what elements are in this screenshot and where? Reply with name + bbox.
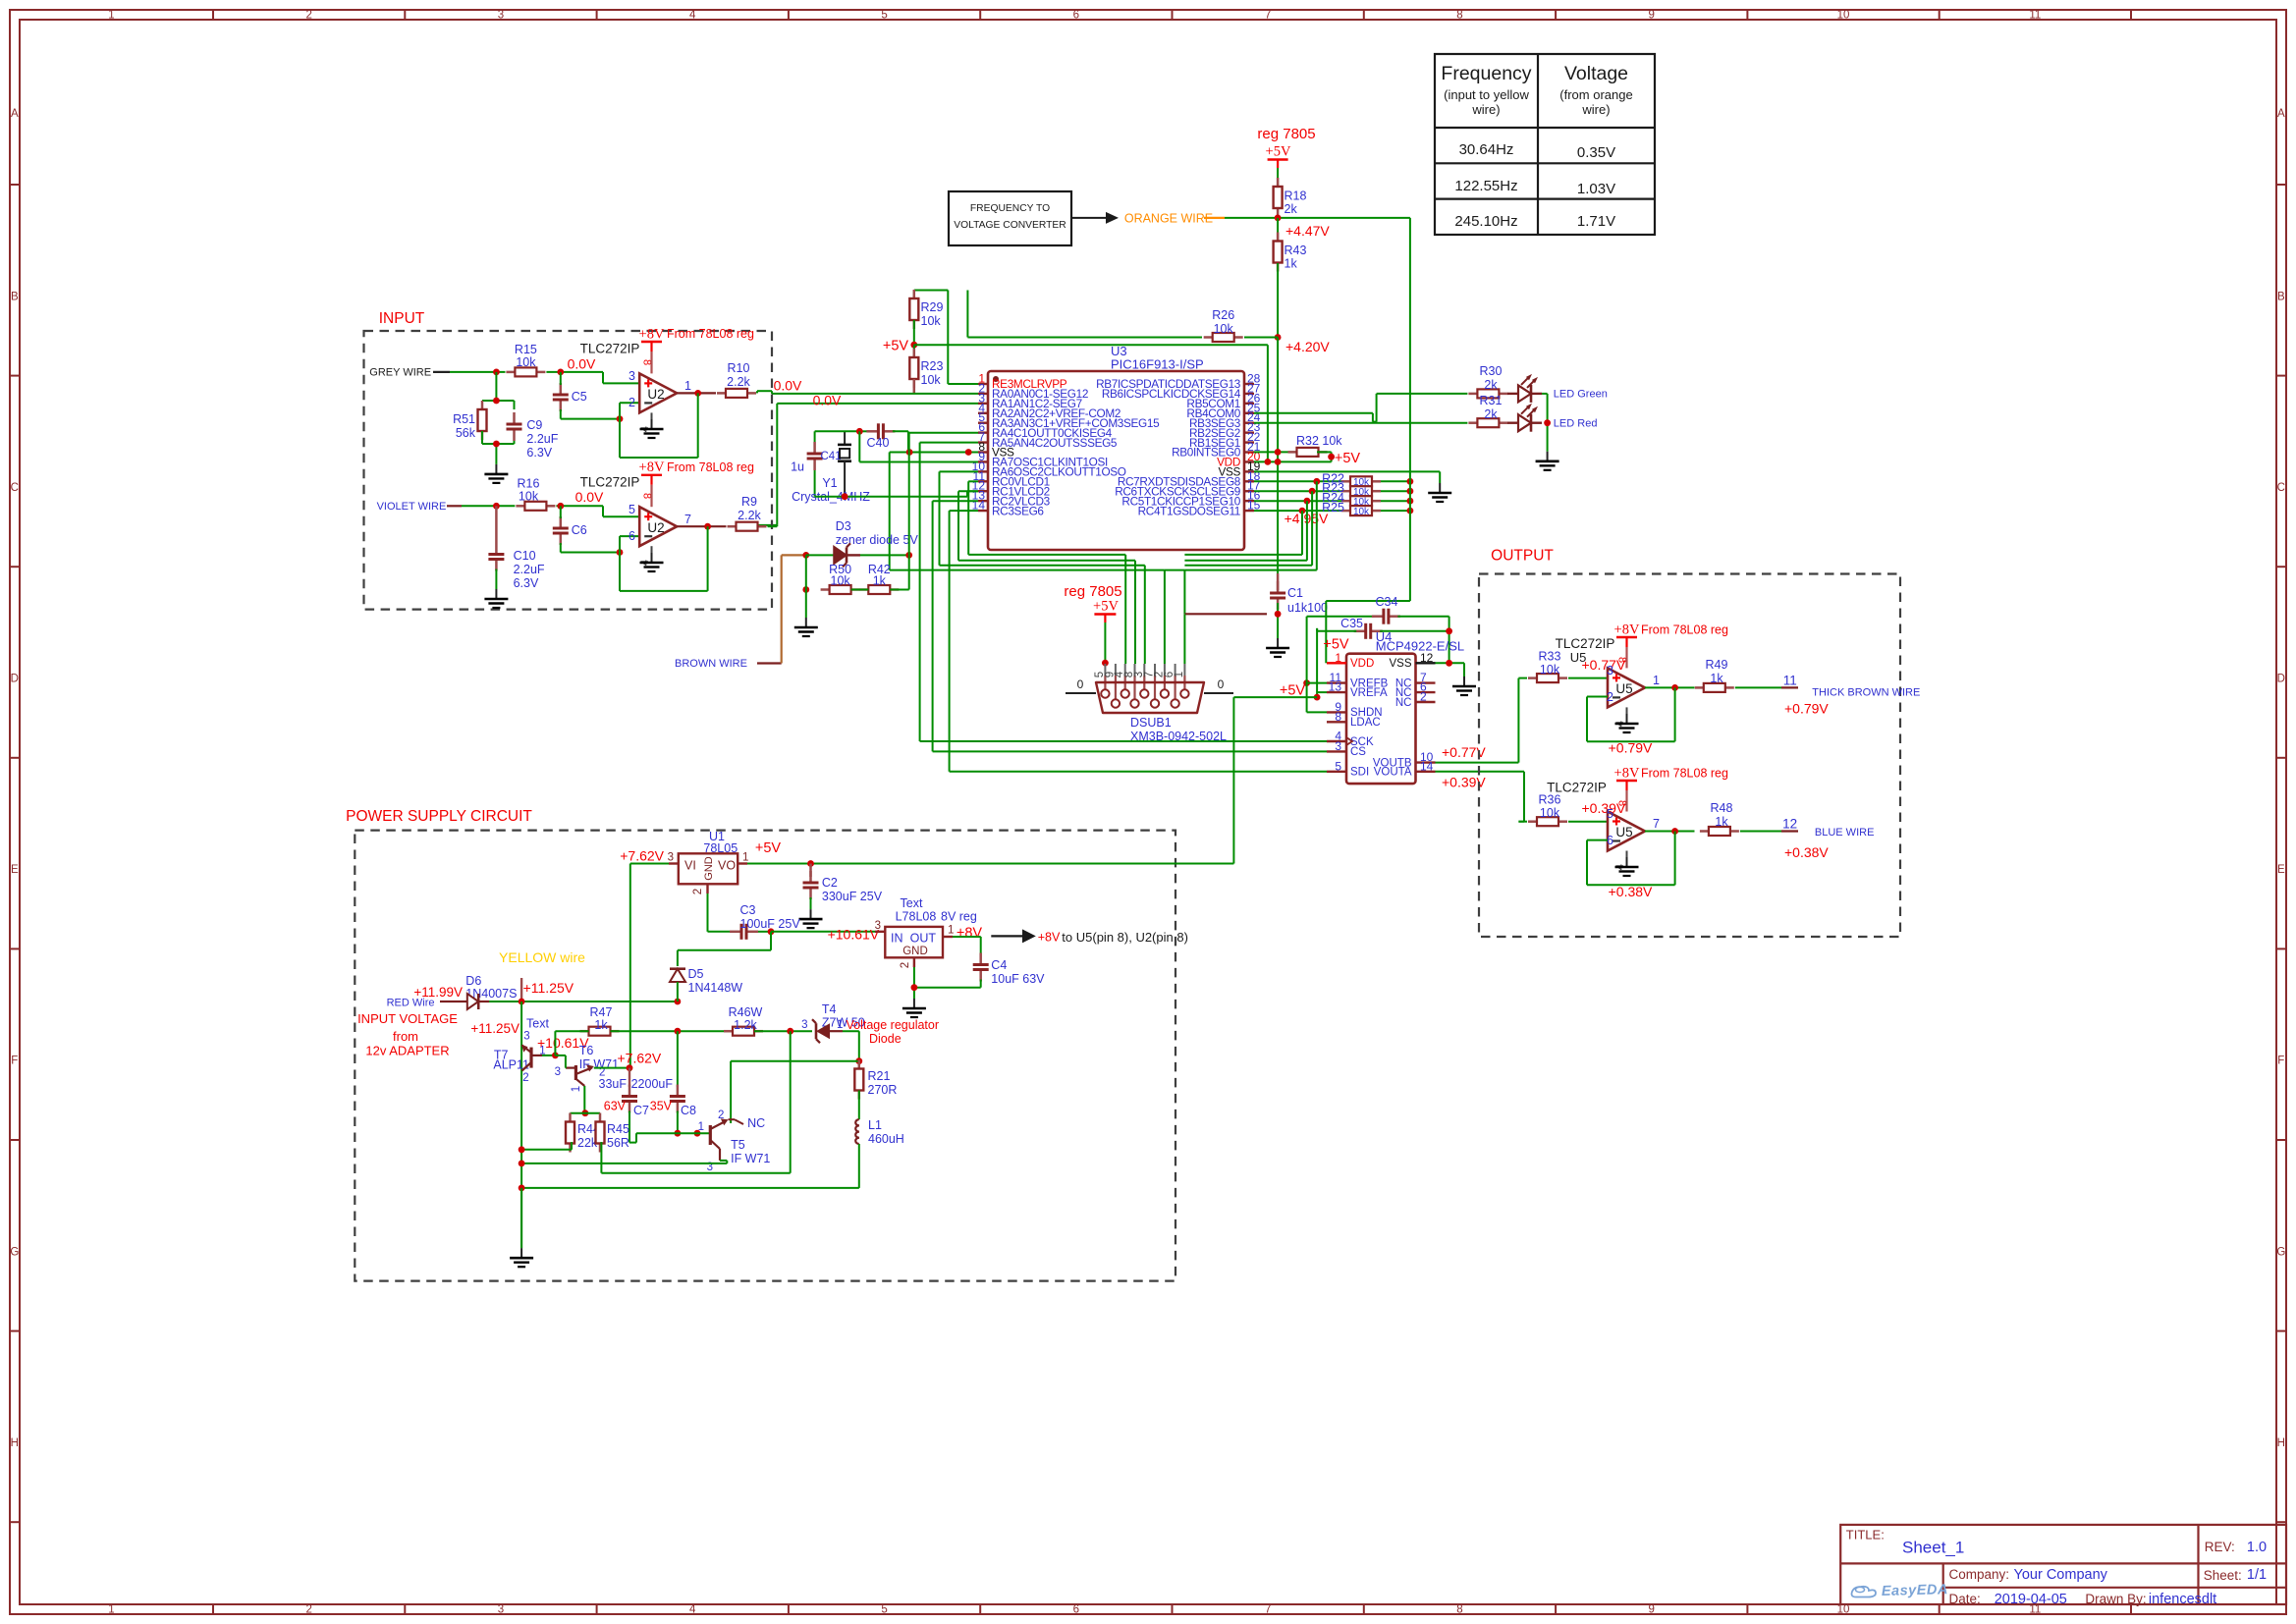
transistor T7 ALP11: [493, 1031, 545, 1085]
svg-text:A: A: [11, 108, 19, 120]
svg-text:R45: R45: [607, 1122, 629, 1136]
svg-text:LDAC: LDAC: [1350, 717, 1381, 729]
svg-text:7: 7: [684, 513, 691, 526]
svg-text:R10: R10: [728, 361, 750, 375]
svg-text:+0.38V: +0.38V: [1609, 884, 1653, 899]
svg-text:H: H: [2277, 1437, 2285, 1449]
svg-text:8V reg: 8V reg: [941, 909, 977, 923]
title block texts: [1846, 1528, 2267, 1608]
svg-text:VOUTA: VOUTA: [1374, 767, 1412, 779]
svg-text:1k: 1k: [1710, 672, 1723, 685]
wire R10 out: [756, 391, 758, 393]
svg-text:1: 1: [108, 10, 114, 22]
svg-text:10: 10: [1837, 10, 1850, 22]
power +5V (top reg7805): [1266, 144, 1291, 169]
svg-text:from: from: [393, 1029, 418, 1044]
diode D3 (zener): [806, 543, 860, 567]
U3 pin 6 RA4C1OUTT0CKISEG4: [978, 420, 1113, 440]
svg-text:C40: C40: [867, 436, 890, 450]
resistor R32 10k: [1288, 434, 1343, 457]
U4 pin 11 VREFB: [1327, 671, 1389, 689]
wire OSC1 to U3 pin9: [859, 431, 978, 461]
wire to +in U2a: [603, 372, 639, 384]
wire C5 top lead: [560, 372, 562, 385]
junction R25 right: [1407, 508, 1414, 514]
U3 pin 10 RA6OSC2CLKOUTT1OSO: [972, 460, 1126, 479]
junction LED red: [1544, 419, 1551, 426]
svg-text:G: G: [10, 1246, 19, 1258]
wire R44/R45 tops: [571, 1113, 601, 1121]
svg-text:R32 10k: R32 10k: [1296, 434, 1342, 448]
inductor L1 460uH: [855, 1118, 904, 1146]
U4 pin 1 VDD: [1327, 651, 1374, 670]
svg-text:3: 3: [629, 369, 635, 383]
svg-text:13: 13: [1329, 680, 1342, 694]
svg-text:11: 11: [2029, 10, 2041, 22]
net label ORANGE WIRE: [1124, 212, 1225, 226]
svg-text:D: D: [2277, 674, 2285, 685]
svg-text:122.55Hz: 122.55Hz: [1454, 178, 1517, 194]
sub-network R51/C9: [482, 372, 515, 409]
wire R47 row left: [555, 1031, 588, 1056]
junction grey node: [493, 369, 500, 376]
svg-text:L78L08: L78L08: [896, 909, 937, 923]
junction R51C9 bottom: [493, 441, 500, 448]
svg-text:2: 2: [305, 1604, 311, 1616]
svg-text:OUTPUT: OUTPUT: [1491, 548, 1554, 565]
svg-text:1: 1: [571, 1086, 582, 1092]
resistor R24 10k: [1322, 491, 1381, 508]
svg-text:9: 9: [1649, 1604, 1655, 1616]
wire R33 to +in: [1568, 677, 1608, 679]
svg-text:VDD: VDD: [1350, 658, 1374, 670]
svg-text:10k: 10k: [921, 314, 942, 328]
svg-text:8: 8: [1456, 1604, 1462, 1616]
wire gnd column via C1 row: [1165, 570, 1267, 664]
junction C7 top: [627, 1064, 633, 1071]
wire C40 right to VSS column: [893, 431, 908, 452]
zener T4 Z7W 50: [801, 1002, 865, 1043]
svg-text:VIOLET WIRE: VIOLET WIRE: [377, 501, 447, 513]
svg-text:1u: 1u: [791, 460, 804, 474]
resistor R23 10k: [1322, 481, 1381, 498]
junction R23 right: [1407, 488, 1414, 495]
svg-text:5: 5: [629, 503, 635, 516]
svg-text:U2: U2: [647, 520, 664, 535]
power +8V (U5a): [1614, 623, 1640, 669]
wire U4 VSS to ground: [1436, 663, 1465, 677]
svg-text:U5: U5: [1615, 825, 1632, 839]
wire U3 to R25: [1254, 510, 1341, 512]
svg-text:6: 6: [1607, 834, 1613, 847]
svg-text:L1: L1: [868, 1118, 882, 1132]
junction U5a output: [1671, 684, 1678, 691]
junction R22 right: [1407, 478, 1414, 485]
wire C7 bottom to T5 row: [629, 1111, 636, 1143]
svg-text:R47: R47: [590, 1005, 613, 1019]
net label NC: [729, 1116, 766, 1130]
wire pin10 to DSUB seg: [940, 471, 1145, 664]
wire to main ground: [520, 1188, 522, 1248]
svg-text:R33: R33: [1539, 650, 1561, 664]
wire pin6 column: [909, 433, 978, 556]
svg-text:INPUT: INPUT: [379, 310, 425, 327]
svg-text:D5: D5: [688, 967, 704, 981]
svg-text:VO: VO: [718, 859, 736, 873]
svg-text:33uF: 33uF: [599, 1077, 628, 1091]
svg-text:C: C: [11, 482, 19, 494]
U4 pin 4 SCK: [1327, 730, 1374, 748]
EasyEDA logo: [1852, 1582, 1949, 1599]
svg-text:5: 5: [881, 1604, 887, 1616]
ground below R50: [805, 618, 807, 627]
resistor R33 10k: [1528, 650, 1567, 683]
U3 pin 22 RB1SEG1: [1189, 430, 1261, 450]
svg-text:10k: 10k: [921, 373, 942, 387]
wire pin14 to SDI: [950, 511, 1327, 772]
capacitor C9 2.2uF 6.3V: [507, 412, 559, 460]
svg-text:R30: R30: [1480, 364, 1503, 378]
wire R21 to L1: [858, 1091, 860, 1120]
resistor R43: [1274, 233, 1307, 272]
power +8V (U2a): [639, 326, 665, 373]
svg-text:+4.47V: +4.47V: [1285, 223, 1330, 239]
wire C3 to IN node: [758, 931, 771, 933]
svg-text:7: 7: [1265, 1604, 1271, 1616]
wire crystal top row: [815, 430, 860, 432]
svg-text:Y1: Y1: [822, 476, 837, 490]
svg-text:B: B: [11, 291, 19, 302]
ground U2b pin4: [640, 546, 664, 571]
junction R47/C8 column: [675, 1028, 682, 1035]
U3 pin 18 RC7RXDTSDISDASEG8: [1118, 469, 1261, 489]
junction T7/T6: [552, 1053, 559, 1059]
svg-text:YELLOW wire: YELLOW wire: [499, 949, 585, 965]
resistor R29: [909, 290, 943, 329]
resistor R51 56k: [453, 401, 486, 440]
wire R15 to node2: [546, 371, 603, 373]
svg-text:5: 5: [1335, 759, 1341, 773]
wire R29 top: [914, 291, 978, 385]
U3 pin 20 VDD: [1217, 450, 1261, 469]
wire bottom rail 3: [521, 1187, 859, 1189]
resistor R46W 1.2k: [724, 1005, 763, 1036]
svg-text:R15: R15: [515, 343, 537, 356]
wire pin21 to R32: [1254, 451, 1298, 453]
svg-text:U2: U2: [647, 387, 664, 402]
ic U3 PIC16F913-I/SP: [988, 344, 1244, 550]
capacitor C8 2200uF 35V: [631, 1031, 696, 1117]
crystal Y1 Crystal_4MHZ: [792, 431, 870, 504]
svg-text:1: 1: [1335, 651, 1341, 665]
U4 pin 13 VREFA: [1327, 680, 1388, 699]
svg-text:CS: CS: [1350, 746, 1366, 758]
svg-text:From 78L08 reg: From 78L08 reg: [667, 327, 754, 341]
wire IN node down to D5: [678, 932, 771, 966]
junction C8 bottom: [675, 1130, 682, 1137]
feedback loop U5a: [1587, 687, 1675, 741]
wire bus down to C1: [1277, 461, 1279, 573]
svg-text:2.2uF: 2.2uF: [514, 563, 545, 576]
wire 0.0V ch1 to U3 pin2: [757, 391, 978, 394]
wire U3 to R23: [1254, 490, 1341, 492]
svg-text:330uF 25V: 330uF 25V: [822, 890, 883, 903]
svg-text:reg 7805: reg 7805: [1257, 126, 1315, 142]
junction VSS row b: [965, 449, 972, 456]
arrow to orange wire: [1071, 212, 1119, 224]
junction R25 left riser: [1299, 508, 1306, 514]
net label BROWN WIRE: [675, 658, 782, 670]
svg-text:6.3V: 6.3V: [526, 446, 552, 460]
resistor R45 56R: [596, 1113, 629, 1153]
resistor R50: [821, 563, 860, 594]
svg-text:C3: C3: [740, 903, 756, 917]
svg-text:63V: 63V: [604, 1100, 627, 1113]
wire T5 collector link: [731, 1061, 859, 1123]
U3 pin 11 RC0VLCD1: [973, 469, 1050, 489]
wire R45 bottom link: [601, 1031, 790, 1173]
svg-text:From 78L08 reg: From 78L08 reg: [1641, 623, 1728, 636]
svg-text:R26: R26: [1212, 308, 1234, 322]
wire VSS path to DSUB seg: [890, 570, 1165, 664]
svg-text:POWER SUPPLY CIRCUIT: POWER SUPPLY CIRCUIT: [346, 808, 532, 825]
svg-text:E: E: [2277, 864, 2285, 876]
svg-text:D3: D3: [836, 519, 851, 533]
power +8V (U2b): [639, 460, 665, 507]
ground below C10: [495, 589, 497, 599]
U3 pin 14 RC3SEG6: [972, 499, 1045, 518]
regulator L78L08: [875, 920, 955, 968]
U3 pin 8 VSS: [978, 440, 1014, 460]
svg-text:0.0V: 0.0V: [568, 356, 596, 372]
ground below C2: [810, 909, 812, 919]
capacitor C40: [859, 423, 895, 450]
ground below LEDs: [1547, 452, 1549, 461]
svg-text:B: B: [2277, 291, 2285, 302]
svg-text:GND: GND: [902, 946, 928, 957]
capacitor C4 10uF 63V: [973, 953, 1045, 987]
wire R26 corner down to U3 pin1: [966, 291, 968, 338]
wire R50 node to ground: [805, 590, 807, 619]
svg-text:1: 1: [742, 852, 748, 864]
wire R50-R42 link: [851, 589, 869, 591]
svg-text:Frequency: Frequency: [1441, 63, 1531, 84]
LED Red: [1507, 404, 1542, 432]
wire brown riser: [782, 555, 806, 663]
svg-text:1: 1: [948, 925, 954, 937]
wire R48 to pin 12: [1740, 831, 1781, 833]
svg-text:U5: U5: [1570, 650, 1587, 665]
svg-text:ORANGE WIRE: ORANGE WIRE: [1124, 212, 1213, 226]
wire orange node to R18 column: [1225, 217, 1278, 219]
U3 pin 3 RA1AN1C2-SEG7: [978, 391, 1082, 410]
svg-text:VI: VI: [684, 859, 696, 873]
resistor R26: [1204, 308, 1243, 342]
svg-text:1.03V: 1.03V: [1577, 181, 1615, 197]
U3 pin 15 RC4T1GSDOSEG11: [1138, 499, 1261, 518]
wire +5V rail to VDD corner: [914, 345, 1268, 461]
pin number 11 (thick brown wire): [1781, 674, 1798, 688]
svg-text:RC3SEG6: RC3SEG6: [992, 504, 1044, 517]
wire +4.47V node to right bus: [1278, 217, 1410, 219]
svg-text:R18: R18: [1285, 189, 1307, 203]
svg-text:BROWN WIRE: BROWN WIRE: [675, 658, 747, 670]
wire +7.62V corner into U1: [630, 864, 669, 1072]
capacitor C2 330uF 25V: [803, 864, 883, 904]
resistor R22 10k: [1322, 471, 1381, 488]
wire junction to L78L08 IN: [771, 931, 875, 933]
junction pin21 bus cross: [1275, 449, 1282, 456]
wire OUT to C4: [953, 937, 981, 953]
svg-text:T6: T6: [579, 1044, 594, 1057]
U3 pin 21 RB0INTSEG0: [1172, 440, 1261, 460]
wire R42 right up: [890, 555, 908, 589]
pin number 12 (blue wire): [1781, 817, 1798, 832]
wire pin11 to DSUB seg: [968, 481, 1125, 664]
svg-text:Voltage: Voltage: [1564, 63, 1628, 84]
svg-text:1: 1: [108, 1604, 114, 1616]
ground below L78L08: [913, 999, 915, 1008]
U3 pin 27 RB6ICSPCLKICDCKSEG14: [1102, 381, 1261, 401]
junction C35 right: [1446, 627, 1452, 634]
U3 pin 16 RC5T1CKICCP1SEG10: [1121, 489, 1260, 509]
U3 pin 26 RB5COM1: [1186, 391, 1260, 410]
svg-text:1: 1: [698, 1121, 704, 1133]
svg-text:+0.79V: +0.79V: [1609, 740, 1653, 756]
label D6 1N4007S: [465, 974, 517, 1001]
wire VOUTB out: [1436, 762, 1519, 764]
svg-text:T5: T5: [731, 1138, 745, 1152]
resistor R21 270R: [854, 1060, 897, 1100]
wire junction to R23: [913, 345, 915, 357]
svg-text:1: 1: [1653, 674, 1660, 687]
svg-text:6: 6: [629, 529, 635, 543]
frequency voltage table: [1435, 54, 1655, 235]
junction R32 +5V: [1328, 454, 1335, 460]
wire bottom rail 2: [521, 1161, 727, 1164]
U3 pin 28 RB7ICSPDATICDDATSEG13: [1096, 372, 1261, 392]
svg-text:+5V: +5V: [1323, 637, 1349, 653]
svg-text:1: 1: [684, 379, 691, 393]
svg-text:2: 2: [718, 1110, 724, 1121]
svg-text:C2: C2: [822, 876, 838, 890]
U3 pin 17 RC6TXCKSCKSCLSEG9: [1115, 479, 1260, 499]
wire U3 to R22: [1254, 480, 1341, 482]
svg-text:Sheet_1: Sheet_1: [1902, 1539, 1964, 1557]
svg-text:XM3B-0942-502L: XM3B-0942-502L: [1130, 730, 1227, 743]
svg-text:TLC272IP: TLC272IP: [1556, 636, 1615, 651]
connector DSUB1 XM3B-0942-502L: [1066, 664, 1233, 743]
wire crystal bottom row: [815, 491, 978, 496]
U4 pin 8 LDAC: [1327, 710, 1381, 729]
svg-text:3: 3: [498, 1604, 504, 1616]
svg-text:wire): wire): [1471, 102, 1500, 117]
svg-text:1k: 1k: [1715, 815, 1728, 829]
wire yellow stub: [520, 978, 522, 1001]
svg-text:10k: 10k: [1540, 806, 1560, 820]
svg-text:E: E: [11, 864, 19, 876]
ground (ch1 RC): [495, 464, 497, 474]
svg-text:infencesdlt: infencesdlt: [2149, 1592, 2216, 1607]
resistor R30 2k: [1468, 364, 1507, 398]
svg-text:C9: C9: [526, 418, 542, 432]
svg-text:+8V: +8V: [639, 460, 665, 475]
svg-text:BLUE WIRE: BLUE WIRE: [1815, 827, 1875, 839]
svg-text:10k: 10k: [831, 574, 851, 588]
wire R51/C9 bottom join: [482, 431, 515, 464]
wire T6 base: [555, 1056, 566, 1068]
wire VDD row: [1254, 460, 1332, 462]
svg-text:OUT: OUT: [910, 932, 937, 946]
junction DSUB pin5: [1102, 660, 1109, 667]
wire C2 to ground: [810, 897, 812, 909]
wire U3 VSS pin19 to ground: [1254, 471, 1440, 483]
wire U5a output: [1645, 686, 1695, 688]
svg-text:Drawn By:: Drawn By:: [2085, 1592, 2146, 1606]
junction D3 cathode node: [905, 552, 912, 559]
wire violet to R16: [462, 505, 515, 507]
junction C1 gnd node: [1275, 611, 1282, 618]
label D3 zener diode 5V: [836, 519, 919, 547]
svg-text:1k: 1k: [1285, 257, 1298, 271]
wire T4 to R21 column: [843, 1031, 859, 1061]
junction U2b output: [704, 523, 711, 530]
svg-text:Date:: Date:: [1949, 1592, 1981, 1606]
svg-text:NC: NC: [747, 1116, 765, 1130]
svg-text:10k: 10k: [1540, 663, 1560, 677]
svg-text:2.2k: 2.2k: [727, 375, 750, 389]
U3 pin 9 RA7OSC1CLKINT1OSI: [978, 450, 1108, 469]
junction crystal top: [856, 428, 863, 435]
svg-text:+5V: +5V: [755, 840, 782, 856]
junction T4 left: [787, 1028, 793, 1035]
junction +5V: [910, 342, 917, 349]
wire riser R22 line down: [1184, 481, 1316, 569]
svg-text:+11.25V: +11.25V: [470, 1021, 519, 1036]
U3 pin 7 RA5AN4C2OUTSSSEG5: [978, 430, 1118, 450]
INPUT dashed box: [364, 331, 773, 610]
svg-text:2: 2: [629, 396, 635, 409]
feedback loop U2a: [620, 393, 698, 458]
svg-text:EasyEDA: EasyEDA: [1882, 1582, 1948, 1599]
svg-text:2k: 2k: [1484, 407, 1498, 421]
svg-text:+8V: +8V: [1614, 623, 1640, 638]
junction D5 bottom node: [675, 999, 682, 1005]
wire R47 to R46W: [611, 1030, 734, 1032]
U4 pin 14 VOUTA: [1374, 759, 1436, 778]
junction U4 VSS: [1446, 660, 1452, 667]
svg-text:12: 12: [1420, 651, 1434, 665]
op-amp U2b TLC272IP: [629, 493, 691, 566]
junction U5b output: [1671, 828, 1678, 835]
feedback loop U2b: [620, 526, 708, 591]
svg-text:R16: R16: [518, 477, 540, 491]
svg-text:9: 9: [1649, 10, 1655, 22]
capacitor C3 100uF 25V: [730, 903, 800, 940]
wire junction to R43: [1277, 218, 1279, 241]
svg-text:wire): wire): [1581, 102, 1610, 117]
wire VREFA riser: [1317, 628, 1327, 697]
U3 pin 2 RA0AN0C1-SEG12: [978, 381, 1088, 401]
svg-text:6.3V: 6.3V: [514, 576, 539, 590]
svg-text:4: 4: [689, 1604, 696, 1616]
resistor R48 1k: [1700, 801, 1739, 836]
wire R22 to right bus: [1381, 480, 1410, 482]
wire U2b output: [677, 525, 726, 527]
U3 pin 13 RC2VLCD3: [972, 489, 1051, 509]
svg-text:C10: C10: [514, 549, 536, 563]
svg-text:1/1: 1/1: [2247, 1567, 2267, 1583]
